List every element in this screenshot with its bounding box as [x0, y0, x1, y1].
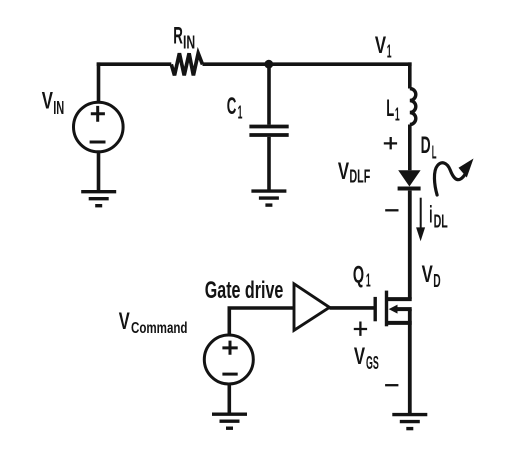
capacitor C1 plates — [249, 127, 288, 136]
wire V_Command to buffer input — [228, 306, 295, 310]
wire V_IN to ground — [97, 152, 101, 192]
ground symbol below V_Command — [212, 414, 247, 428]
V_Command minus sign — [222, 373, 237, 376]
voltage source V_IN circle — [74, 102, 124, 152]
svg-text:V: V — [354, 343, 365, 370]
wire inductor to diode — [408, 125, 412, 171]
MOSFET drain lead — [387, 297, 412, 301]
svg-text:V: V — [42, 88, 53, 115]
squiggle arrowhead — [459, 159, 474, 178]
diode D_L cathode bar — [398, 186, 421, 190]
svg-text:L: L — [386, 95, 394, 122]
svg-text:1: 1 — [395, 104, 400, 124]
svg-text:Command: Command — [131, 320, 188, 337]
resistor R_IN — [171, 53, 202, 75]
wire top horizontal R_IN to corner — [203, 62, 412, 66]
svg-text:V: V — [119, 308, 130, 335]
MOSFET source minus polarity — [385, 384, 398, 386]
ground symbol below V_IN — [81, 192, 116, 206]
node junction dot — [264, 60, 273, 69]
svg-text:D: D — [421, 132, 431, 159]
inductor L1 coil — [410, 89, 416, 125]
diode minus polarity — [385, 209, 398, 211]
svg-text:IN: IN — [183, 32, 195, 52]
ground symbol below MOSFET — [392, 415, 427, 429]
diode D_L plus polarity — [384, 137, 397, 149]
svg-text:Q: Q — [353, 261, 364, 288]
light emission squiggle arrow — [434, 163, 467, 195]
svg-text:V: V — [338, 158, 349, 185]
svg-text:V: V — [375, 32, 386, 59]
svg-text:DL: DL — [434, 212, 448, 232]
wire top horizontal V_IN to R_IN — [97, 62, 172, 66]
wire V_Command to ground — [228, 385, 232, 415]
ground symbol below C1 — [251, 191, 286, 205]
V_IN minus sign — [90, 141, 106, 144]
svg-text:1: 1 — [366, 271, 371, 291]
svg-text:DLF: DLF — [349, 167, 370, 187]
svg-text:GS: GS — [366, 353, 379, 373]
MOSFET Q1 gate bar — [374, 297, 377, 321]
voltage source V_Command circle — [204, 335, 253, 384]
diode D_L triangle — [398, 170, 420, 186]
svg-text:L: L — [432, 143, 437, 163]
wire capacitor to ground — [267, 137, 271, 191]
wire right corner down to inductor — [408, 62, 412, 88]
current arrow i_DL — [420, 198, 422, 230]
wire V_IN vertical drop — [97, 62, 101, 101]
svg-text:R: R — [173, 23, 183, 50]
svg-text:Gate drive: Gate drive — [205, 277, 283, 304]
svg-text:IN: IN — [53, 98, 64, 118]
svg-text:1: 1 — [238, 103, 243, 123]
wire node to capacitor C1 — [267, 64, 271, 125]
MOSFET source lead — [387, 321, 412, 325]
svg-text:C: C — [227, 93, 237, 120]
MOSFET Q1 channel bar — [385, 291, 388, 327]
svg-text:V: V — [422, 261, 433, 288]
wire MOSFET source to ground — [408, 309, 412, 415]
buffer gate-driver triangle — [294, 284, 330, 331]
svg-text:D: D — [433, 271, 440, 291]
MOSFET gate plus polarity — [354, 322, 367, 336]
wire diode to MOSFET drain — [408, 191, 412, 300]
V_Command plus sign — [222, 341, 237, 355]
V_IN plus sign — [91, 106, 105, 122]
MOSFET body arrow — [389, 305, 398, 314]
svg-text:i: i — [429, 201, 432, 228]
svg-text:1: 1 — [387, 42, 392, 62]
wire buffer output to gate — [330, 306, 374, 310]
